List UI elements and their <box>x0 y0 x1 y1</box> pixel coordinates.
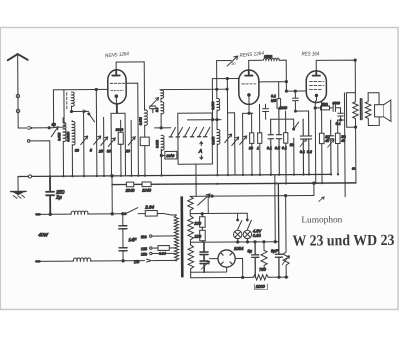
wire y113 right <box>295 110 308 112</box>
ground <box>17 177 19 191</box>
series cap <box>333 105 340 111</box>
svg-text:8μF: 8μF <box>271 248 278 253</box>
dial lamp 1 <box>233 230 241 238</box>
tube2 anode <box>245 70 252 76</box>
col x309 cap <box>306 111 312 175</box>
fuse box R a <box>126 182 133 187</box>
svg-text:Lumophon: Lumophon <box>301 214 343 224</box>
cathode chain tube3 <box>315 107 320 109</box>
wire x345 <box>343 93 346 197</box>
column x104 trimmer <box>101 117 108 176</box>
main bus 2 <box>112 183 356 185</box>
secondary winding mid <box>188 216 194 240</box>
svg-text:700: 700 <box>259 267 266 272</box>
tube2 grid wire <box>212 78 239 119</box>
svg-text:100: 100 <box>194 234 201 239</box>
svg-text:0.140: 0.140 <box>211 136 215 144</box>
col x303.5 cap variable <box>300 119 306 175</box>
tiny value labels <box>51 54 355 173</box>
core dashes <box>66 93 68 109</box>
filter cap 2 <box>275 184 283 277</box>
bypass cap <box>338 108 344 120</box>
svg-text:M3: M3 <box>271 99 276 103</box>
svg-text:0.003: 0.003 <box>139 117 143 125</box>
dial lamp switches <box>238 213 248 219</box>
grid brackets under tube2 <box>228 104 253 113</box>
svg-text:40: 40 <box>341 139 345 143</box>
tube1 cathode <box>115 95 118 98</box>
mains switch <box>125 208 138 214</box>
svg-text:25: 25 <box>98 149 103 153</box>
output transformer primary loop <box>346 93 355 128</box>
tube1 anode wire to top <box>116 62 144 70</box>
coil L8 <box>217 98 220 119</box>
svg-text:0.003: 0.003 <box>211 101 215 109</box>
coil L7 <box>161 135 164 155</box>
svg-text:0500: 0500 <box>264 55 272 59</box>
svg-text:0.1: 0.1 <box>300 150 305 154</box>
tube1 RENS1264 <box>108 70 127 104</box>
band wire <box>72 110 89 112</box>
resistor 100 b <box>200 230 206 241</box>
feed line 1 <box>274 175 276 242</box>
svg-text:1040: 1040 <box>142 188 152 193</box>
trimmer C ant <box>49 127 59 137</box>
lamp bottom wire <box>238 239 248 242</box>
wire coil to tube3 grid <box>259 60 307 91</box>
antenna <box>8 54 29 128</box>
tube3 grids <box>309 80 323 82</box>
bottom rail <box>191 276 288 279</box>
arrow mark <box>319 197 325 202</box>
col x271 cap <box>268 119 274 175</box>
wire y121 right <box>271 118 294 120</box>
column x95.5 trimmer <box>94 109 101 176</box>
resistor 1000 zigzag <box>253 275 268 280</box>
bus2 dots <box>195 182 323 185</box>
column x315.7 <box>314 108 317 183</box>
column x145 <box>143 62 145 110</box>
tube3 anode <box>313 71 320 76</box>
svg-text:40W: 40W <box>38 232 48 237</box>
svg-text:150: 150 <box>141 253 147 257</box>
trimmer x235 <box>232 113 239 175</box>
col x286 resistor <box>285 111 288 183</box>
transformer core <box>360 99 362 120</box>
svg-text:125: 125 <box>141 247 147 251</box>
filter cap 1 <box>251 242 258 278</box>
svg-text:20: 20 <box>125 149 130 153</box>
heater wire <box>190 213 202 215</box>
svg-text:0.002: 0.002 <box>57 133 61 141</box>
grid wire tube1 <box>64 88 107 90</box>
column x80 trimmer <box>81 111 88 176</box>
svg-text:W 23 und WD 23: W 23 und WD 23 <box>292 232 394 250</box>
svg-text:110: 110 <box>141 235 147 239</box>
svg-text:5000: 5000 <box>332 101 340 105</box>
column x131.5 trimmer <box>128 120 135 176</box>
connector arrow <box>28 126 33 129</box>
wire antenna to band switch <box>18 127 48 129</box>
heater caps <box>200 242 208 272</box>
svg-text:A: A <box>198 149 203 155</box>
svg-text:50Ω: 50Ω <box>321 102 328 106</box>
osc cap <box>150 106 156 113</box>
svg-text:0.1: 0.1 <box>271 94 276 98</box>
cathode link tube1 <box>111 104 125 113</box>
column x322 <box>320 102 323 183</box>
tube1 grid <box>110 82 124 84</box>
tube3 cathode <box>315 94 317 96</box>
mains choke 2 <box>73 258 91 261</box>
coil L3 <box>63 122 66 141</box>
tube3 anode wire <box>316 60 355 93</box>
column x111.5 <box>108 113 115 176</box>
bus2 drop <box>111 176 113 214</box>
svg-text:0.2: 0.2 <box>307 150 312 154</box>
svg-text:0.5: 0.5 <box>155 107 159 112</box>
svg-text:0.5: 0.5 <box>275 146 280 150</box>
svg-text:14F: 14F <box>128 237 136 242</box>
step up wire <box>313 183 315 195</box>
cap 2u <box>46 176 54 214</box>
svg-text:0.1: 0.1 <box>267 146 272 150</box>
selector box <box>158 246 169 251</box>
svg-text:30: 30 <box>75 149 79 153</box>
coil L6a <box>161 90 164 98</box>
wire L2 to grid line <box>71 106 73 111</box>
svg-text:2μ: 2μ <box>55 195 62 201</box>
trimmer box 20p0 <box>165 151 177 159</box>
coil L6 <box>161 102 164 128</box>
rectifier wires <box>210 258 243 277</box>
rectifier tube 1054 <box>218 250 235 267</box>
col x279 cap <box>276 108 282 174</box>
svg-text:50: 50 <box>290 143 294 147</box>
tube3 RES164 <box>306 71 326 103</box>
mains line 1 <box>37 213 71 215</box>
osc trimmer <box>149 98 158 108</box>
column x125.5 resistor <box>124 113 126 175</box>
svg-text:0.0005: 0.0005 <box>66 132 70 142</box>
svg-text:1054: 1054 <box>234 246 244 251</box>
svg-text:2040: 2040 <box>125 188 136 193</box>
coil L2 upper <box>71 92 74 106</box>
connector <box>27 140 30 143</box>
variable resistor right <box>283 196 290 278</box>
secondary loop <box>368 93 379 126</box>
svg-text:1: 1 <box>257 146 259 150</box>
caps between mains <box>122 214 124 261</box>
svg-text:ω: ω <box>352 166 355 171</box>
top loop right side <box>207 196 209 213</box>
tube1 grid wire right <box>126 83 138 176</box>
wire into gang <box>155 127 171 129</box>
secondary winding top <box>188 196 194 210</box>
primary winding zigzag <box>174 215 179 261</box>
coil L4 <box>72 121 75 145</box>
dial indicator A <box>200 142 203 160</box>
svg-text:40: 40 <box>325 139 329 143</box>
variable tap arrow <box>198 194 211 205</box>
resistor 50ohm <box>321 106 330 110</box>
resistor R cath <box>118 132 123 144</box>
main bus 1 <box>18 174 331 176</box>
svg-text:0.002: 0.002 <box>155 140 159 148</box>
connector pair <box>147 259 152 262</box>
svg-text:30: 30 <box>107 149 111 153</box>
svg-text:0.1: 0.1 <box>336 122 341 126</box>
grid leak resistor <box>278 82 280 99</box>
mains choke 1 <box>71 211 88 214</box>
svg-text:30: 30 <box>52 123 56 127</box>
svg-text:100: 100 <box>194 221 201 226</box>
node <box>48 127 50 129</box>
svg-text:RES 164: RES 164 <box>302 51 320 57</box>
HT wire to right <box>212 194 314 197</box>
secondary winding bottom <box>188 245 194 269</box>
svg-text:5: 5 <box>90 148 92 152</box>
gang inner wire <box>187 119 221 121</box>
col x252 resistor <box>251 113 253 175</box>
bus1 dots <box>49 173 339 177</box>
col x243 <box>240 113 247 175</box>
transformer core lines <box>180 196 183 277</box>
svg-text:1000: 1000 <box>256 284 266 289</box>
tube2 cathode <box>248 94 251 97</box>
svg-text:5000: 5000 <box>116 128 124 132</box>
svg-text:7/8: 7/8 <box>134 259 140 264</box>
coil L9 <box>217 129 220 175</box>
voltage selector arrows <box>152 235 174 237</box>
fuse <box>145 211 157 217</box>
band switch S1 <box>89 114 95 122</box>
gang bottom wire to bus <box>195 164 197 196</box>
tube2 RENS1264 <box>239 70 259 105</box>
transformer bottom wire <box>355 127 357 183</box>
coil L5 <box>145 110 148 137</box>
gang slashes <box>170 127 210 137</box>
box R x145 <box>140 137 149 146</box>
heater var arrow <box>201 261 210 269</box>
svg-text:2540: 2540 <box>278 106 287 110</box>
second input wire <box>30 141 50 177</box>
coupling cap tube3 grid <box>292 91 298 111</box>
speaker <box>375 105 384 117</box>
bleeder resistor 700 <box>261 242 267 271</box>
svg-text:20Å0: 20Å0 <box>165 154 174 158</box>
gang capacitor box <box>178 113 213 164</box>
svg-text:2.64: 2.64 <box>144 205 154 210</box>
svg-text:0.1: 0.1 <box>282 146 287 150</box>
grid cap below tube2 <box>263 104 269 119</box>
coil L10 <box>263 58 279 60</box>
coil box L1 <box>53 90 64 128</box>
wire node to switch <box>95 89 97 109</box>
svg-text:30: 30 <box>249 146 253 150</box>
osc wire y90.6 <box>160 88 227 90</box>
tube2 grid <box>242 83 256 85</box>
column x331 cap variable <box>328 120 334 174</box>
column x217.4 <box>216 61 218 99</box>
secondary winding <box>365 93 371 126</box>
wire tube2 anode top <box>249 60 263 69</box>
column x338 <box>337 120 339 174</box>
fuse box R b <box>142 182 151 187</box>
tube1 anode <box>112 70 120 76</box>
dial lamp 2 <box>243 230 251 238</box>
primary winding <box>353 93 359 128</box>
svg-text:0.54: 0.54 <box>253 233 262 238</box>
col x294 switch <box>294 119 299 175</box>
mains line 2 <box>37 260 74 262</box>
top trimmer tube2 <box>217 56 238 66</box>
trimmer x228 <box>224 79 232 176</box>
col x260 resistor <box>259 104 261 174</box>
resistor 100 a <box>200 217 206 228</box>
